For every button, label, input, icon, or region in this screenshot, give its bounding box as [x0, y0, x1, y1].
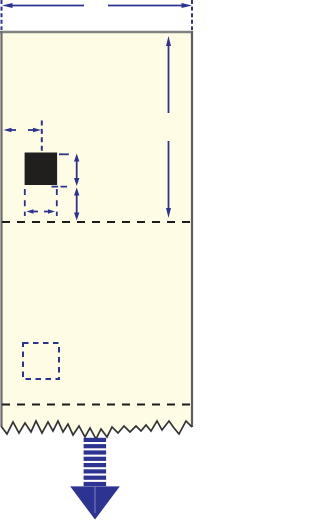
- sheet width dimension line right segment with right arrowhead: [108, 5, 183, 7]
- dashed projection right edge below square: [56, 189, 58, 216]
- extension line right (dashed) for sheet width dimension: [191, 0, 193, 30]
- dashed extension from square top-right: [59, 153, 69, 155]
- fold/cut dashed line (upper): [2, 221, 192, 223]
- mark offset dimension: right arrow to centerline: [28, 129, 34, 131]
- mark height dimension (double arrow): [76, 160, 78, 180]
- dashed label square (lower): [23, 343, 59, 379]
- extension line left (dashed) for sheet width dimension: [1, 0, 3, 30]
- sheet top border: [0, 31, 193, 33]
- fold/cut dashed line (lower): [2, 404, 192, 406]
- torn bottom edge zigzag: [1, 421, 192, 439]
- sheet width dimension line left segment with left arrowhead: [11, 5, 84, 7]
- sheet left border: [0, 31, 2, 426]
- right height dimension lower segment with down arrowhead: [168, 141, 170, 211]
- dashed centerline above black square: [41, 121, 43, 152]
- paper feed arrow: center seam: [94, 487, 96, 513]
- paper feed arrow: head: [70, 486, 120, 519]
- dashed extension from square bottom-right: [52, 186, 68, 188]
- right height dimension upper segment with up arrowhead: [168, 43, 170, 113]
- black mark square: [25, 153, 58, 186]
- mark-to-foldline dimension (double arrow): [76, 194, 78, 214]
- paper feed arrow: striped shaft: [84, 438, 107, 486]
- mark width dimension: left-pointing arrow: [32, 211, 39, 213]
- mark width dimension: right-pointing arrow: [44, 211, 50, 213]
- sheet right border: [191, 31, 193, 427]
- mark offset dimension: left arrow to sheet edge: [10, 129, 16, 131]
- dashed projection left edge below square: [24, 189, 26, 216]
- paper sheet body with torn bottom edge: [1, 31, 192, 439]
